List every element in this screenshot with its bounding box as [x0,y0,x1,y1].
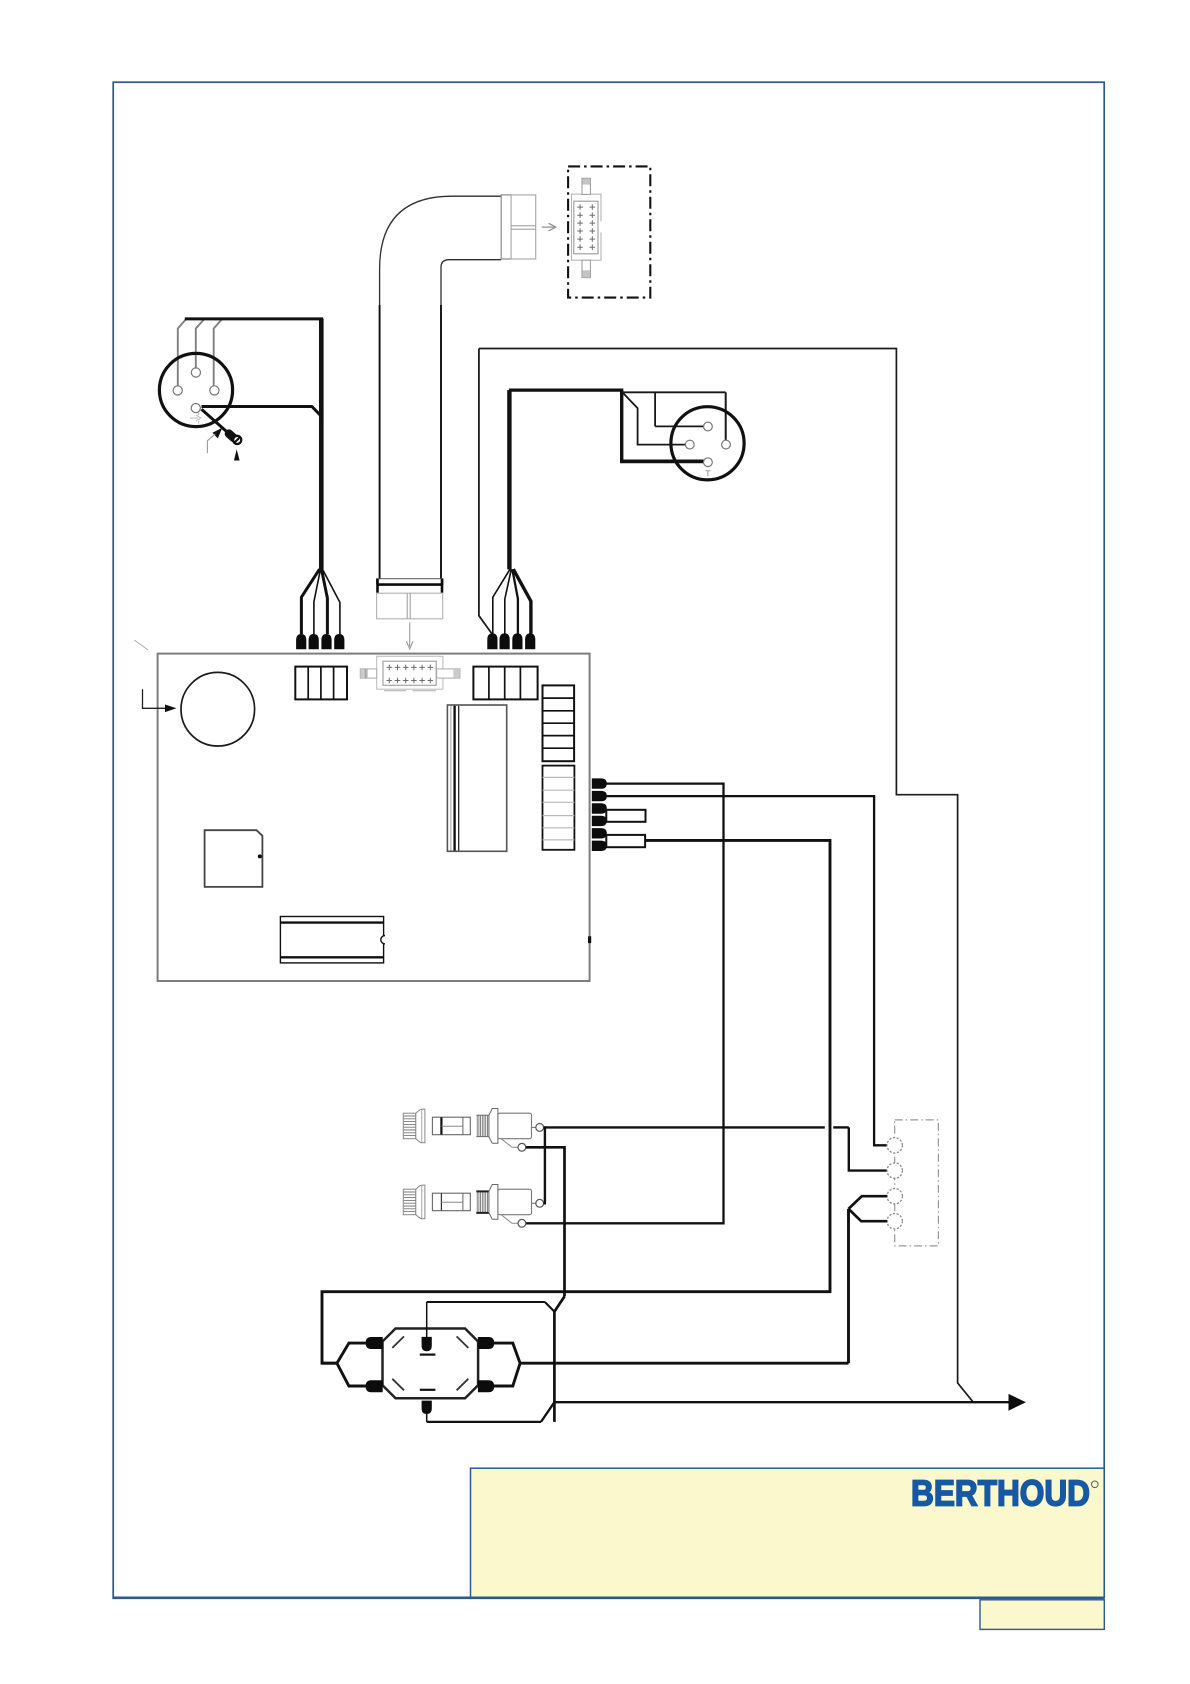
screwdriver at P1 pin [202,409,242,444]
wire: right cable down to board [507,390,511,569]
harness connector J1 pins (2 x 6 grid) [577,204,595,250]
polarity mark in P1 [190,413,201,424]
hose elbow conduit [380,196,502,579]
terminal block X1 (4 way) [295,667,347,700]
hose end connector (top right of elbow) [501,195,536,259]
jumper loop T3-T4 [606,810,645,822]
valve bottom marks [420,1389,436,1391]
jumper loop T5-T6 [606,835,645,847]
valve left terminals [366,1337,383,1392]
arrow to harness connector detail [542,223,556,231]
corner leader tick [134,640,148,650]
P2 T mark [705,471,710,476]
sensor S2 (speed sensor) [403,1185,543,1228]
wire: valve top coil feed [427,1302,555,1337]
valve right terminals [478,1337,494,1392]
pointer cone under screw [234,449,240,460]
wire: thin drop into right bundle [479,349,492,634]
board edge pad tick [588,936,591,943]
sensor S1 (speed sensor) [403,1109,543,1152]
page frame border [113,82,1104,1598]
strip circles 1-4 [887,1138,902,1229]
gray arrow from hose connector to board socket [406,623,413,650]
board socket J2 pins (2 x 6 grid) [387,665,434,684]
page bottom border (thick) [112,1597,1104,1600]
wire: S1 top pin to strip circle 2 (jumps thick wire) [544,1127,887,1170]
wire: P2 left pin [623,393,685,444]
right bundle crimp terminals [487,633,535,649]
left DIN connector P1 shell [159,353,232,426]
wire: long thin supply from board area to bottom right [479,349,973,1403]
wire: S1 top pin to S2 top pin [544,1126,547,1203]
valve bottom terminal [422,1401,432,1414]
leader arrow pointing to screw [207,428,222,454]
left bundle crimp terminals [296,634,344,649]
buzzer B1 [181,672,255,746]
right bundle fan wires [493,569,531,633]
wire: P2 bottom pin thick feed [620,390,704,461]
right DIN connector P2 pins [685,422,730,467]
wire: valve left chevron [322,1343,366,1386]
wire: P2 top pin [655,393,704,426]
left DIN connector P1 pins [173,368,219,413]
wire: S1 low pin down to valve net [526,1147,565,1422]
board socket J2 [360,656,460,691]
svg-text:BERTHOUD: BERTHOUD [911,1473,1090,1514]
harness connector J1 (in detail box) [572,178,603,277]
dash-dot detail box [568,166,650,297]
left bundle fan wires [301,569,340,634]
terminal strip X4 (7 way) [543,766,575,850]
wire: left cable down to board [319,319,324,570]
IC U2 (DIP) [280,917,389,963]
wire: T1 to sensor S2 low pin [526,784,724,1224]
wire: T2 to strip circle 1 [606,796,887,1145]
valve top terminal [422,1337,432,1351]
wire: circles 3/4 chevron to valve right side [520,1196,887,1363]
wire: valve right chevron [494,1343,520,1386]
wire: P1 bottom pin to cable [202,407,323,418]
board output terminals T1-T6 [592,778,607,851]
relay K1 [447,705,506,851]
wire: valve bottom coil feed [427,1402,555,1422]
wire: T5/T6 feed to valve left side [322,840,830,1363]
wire: thick bus from P1 top [185,317,323,320]
small yellow box [980,1600,1104,1630]
wire: main output line with arrow [554,1401,1009,1403]
terminal block X2 (4 way) [473,667,537,700]
title block (yellow) [471,1468,1105,1597]
left DIN connector P1 gray pin wires [178,320,222,386]
hose bottom collar [377,579,443,593]
valve corner hatches [392,1336,468,1390]
pointer arrow to buzzer [143,689,177,712]
PCB board outline [158,654,590,981]
terminal strip X3 (6 way) [543,685,575,761]
right DIN connector P2 shell [671,407,744,480]
hose bottom connector housing [377,593,443,619]
IC U1 (square chip) [205,830,263,887]
wire: thick bus to P2 [509,389,623,392]
terminal strip dash-dot box [895,1120,939,1246]
regulation valve V1 body [383,1329,479,1399]
wire: P2 right pin [623,392,725,440]
